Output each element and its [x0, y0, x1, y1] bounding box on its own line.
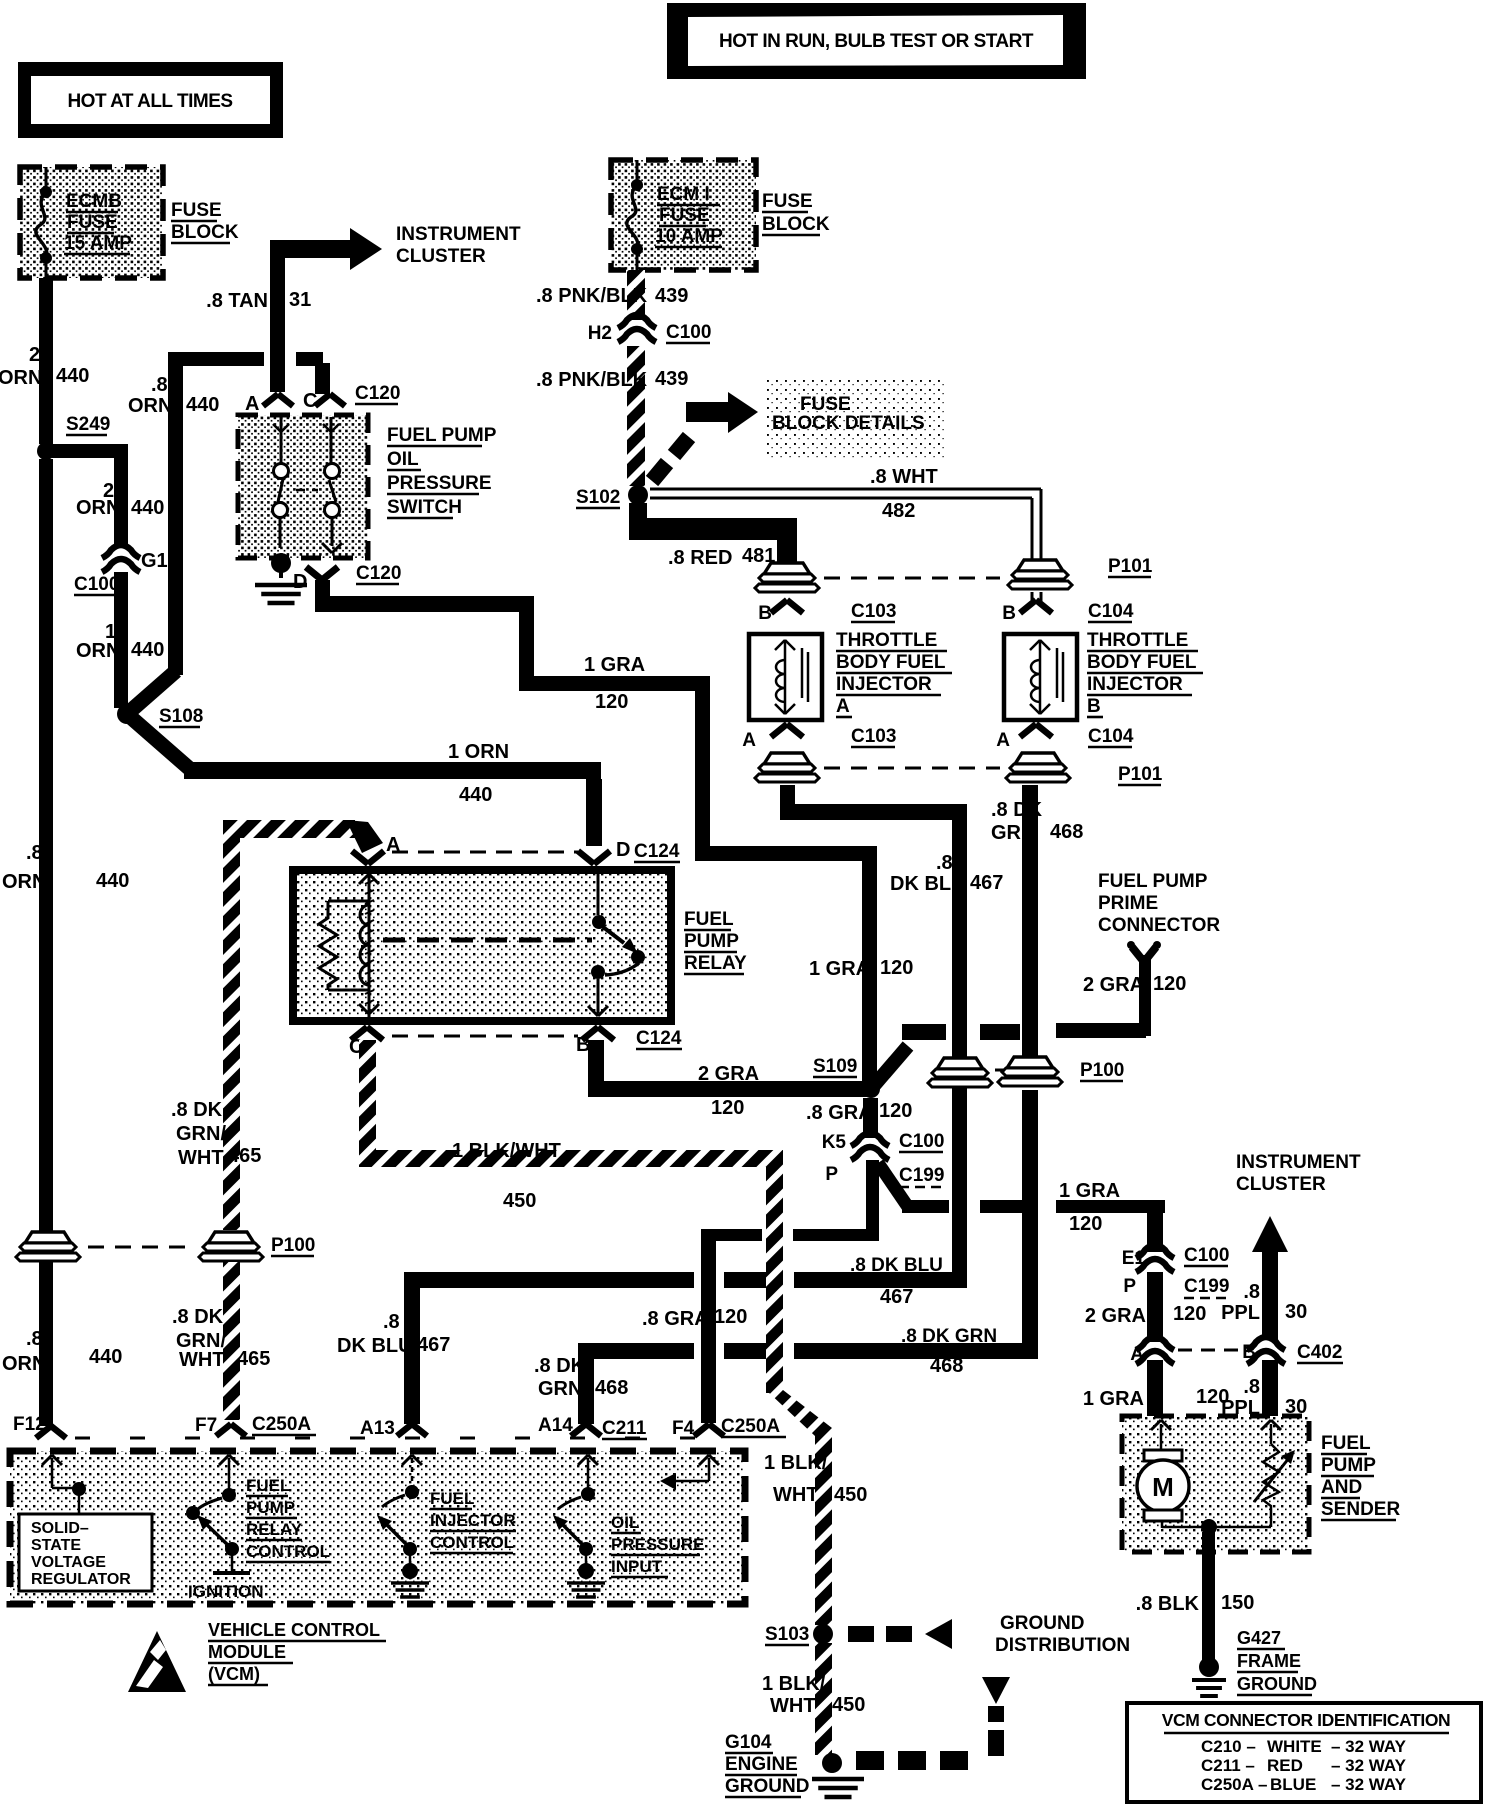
wire .8 DK GRN/WHT 465 relay A to F7: [223, 820, 383, 1230]
svg-text:.8 DK: .8 DK: [991, 799, 1043, 821]
label .8 GRA 120 (to F4): [642, 1306, 747, 1330]
svg-text:30: 30: [1285, 1301, 1307, 1323]
switch contact (left half): [273, 417, 290, 548]
svg-text:H2: H2: [588, 323, 612, 344]
svg-text:S249: S249: [66, 414, 110, 435]
svg-text:.8 PNK/BLK: .8 PNK/BLK: [536, 285, 648, 307]
wire .8 ORN 440 S108 up to switch C: [127, 671, 176, 714]
svg-text:1 GRA: 1 GRA: [584, 654, 645, 676]
svg-text:F4: F4: [672, 1418, 695, 1439]
fuel pump and sender box: [1122, 1416, 1309, 1552]
svg-text:439: 439: [655, 285, 688, 307]
svg-text:VEHICLE CONTROL: VEHICLE CONTROL: [208, 1620, 380, 1640]
label .8 WHT 482: [870, 466, 938, 522]
svg-text:468: 468: [1050, 821, 1083, 843]
svg-text:G104: G104: [725, 1732, 772, 1753]
wire .8 DK GRN/WHT 465 (lower): [223, 1262, 240, 1420]
svg-text:.8 DK: .8 DK: [172, 1306, 224, 1328]
svg-text:15 AMP: 15 AMP: [64, 233, 132, 254]
switch internal dashed link: [296, 489, 318, 492]
svg-text:ORN: ORN: [2, 1353, 46, 1375]
label .8 DK GRN/WHT 465 (upper): [171, 1099, 261, 1169]
svg-text:FUSE: FUSE: [67, 212, 118, 233]
svg-text:C402: C402: [1297, 1342, 1342, 1363]
pump/sender junction: [1162, 1519, 1271, 1535]
label 2 ORN 440 (upper left): [0, 344, 89, 389]
wire 2 ORN 440 branch from S249: [46, 444, 128, 458]
svg-text:C210 –: C210 –: [1201, 1737, 1256, 1756]
terminal F7 C250A: [195, 1414, 316, 1436]
fuel pump prime connector: [1127, 941, 1161, 962]
svg-text:FUEL: FUEL: [684, 909, 734, 930]
svg-text:440: 440: [89, 1346, 122, 1368]
svg-text:C100: C100: [1184, 1245, 1229, 1266]
svg-text:ECM I: ECM I: [657, 184, 710, 205]
label .8 DK GRN 468 (upper): [991, 799, 1083, 844]
terminal F4 C250A: [672, 1416, 786, 1439]
svg-text:.8: .8: [1243, 1376, 1260, 1398]
svg-text:.8: .8: [151, 374, 168, 396]
svg-text:.8 GRA: .8 GRA: [806, 1102, 873, 1124]
oil pressure switch box: [238, 415, 368, 558]
label .8 TAN 31: [206, 289, 311, 312]
title box HOT AT ALL TIMES: [18, 62, 283, 138]
wire .8 PNK/BLK 439 (lower): [627, 346, 645, 486]
svg-text:CONTROL: CONTROL: [246, 1542, 330, 1561]
wire 1 ORN 440 G1 to S108: [114, 572, 128, 708]
connector A / B C402: [1130, 1337, 1343, 1365]
svg-text:.8 DK GRN: .8 DK GRN: [901, 1326, 997, 1347]
svg-text:BLOCK: BLOCK: [171, 222, 239, 243]
svg-text:467: 467: [417, 1334, 450, 1356]
svg-text:1 GRA: 1 GRA: [809, 958, 870, 980]
VCM fuel injector control driver: [377, 1455, 429, 1597]
svg-text:BLUE: BLUE: [1270, 1775, 1316, 1794]
label ECMB FUSE 15 AMP: [64, 191, 132, 254]
VCM fuel pump relay control driver: [186, 1455, 250, 1573]
label 1 GRA 120 (at S109 vertical): [809, 957, 913, 980]
fuse block (right) outline: [611, 160, 756, 270]
svg-text:ENGINE: ENGINE: [725, 1754, 798, 1775]
node S102: [576, 485, 648, 508]
wire 2 ORN 440 from fuse block to S249: [39, 278, 53, 444]
connector E1 C100 / P C199: [1122, 1245, 1230, 1298]
svg-text:DK BLU: DK BLU: [890, 873, 966, 895]
svg-text:– 32 WAY: – 32 WAY: [1331, 1756, 1407, 1775]
label 2 GRA 120 (cluster): [1085, 1303, 1207, 1327]
svg-text:440: 440: [131, 497, 164, 519]
label FUSE BLOCK DETAILS: [765, 380, 945, 458]
svg-text:AND: AND: [1321, 1477, 1362, 1498]
svg-text:FUSE: FUSE: [171, 200, 222, 221]
wire 1 ORN 440 S108 to relay D: [127, 714, 191, 770]
svg-text:BODY FUEL: BODY FUEL: [1087, 652, 1197, 673]
throttle body fuel injector B: [1004, 634, 1077, 720]
label 1 ORN 440 (horizontal): [448, 741, 509, 806]
svg-text:ORN: ORN: [2, 871, 46, 893]
svg-text:GROUND: GROUND: [1237, 1674, 1317, 1694]
svg-text:440: 440: [96, 870, 129, 892]
label ECM I FUSE 10 AMP: [655, 184, 723, 247]
svg-text:2 GRA: 2 GRA: [698, 1063, 759, 1085]
svg-text:D: D: [616, 839, 630, 861]
VCM F4 internal arrow: [660, 1455, 719, 1490]
solid-state voltage regulator box: [19, 1514, 152, 1591]
svg-text:M: M: [1152, 1472, 1174, 1502]
ground (oil pressure switch): [255, 553, 307, 603]
terminal B C103: [758, 600, 896, 624]
label G427 FRAME GROUND: [1237, 1628, 1317, 1695]
wire .8 DK BLU 467 from injector A to A13: [780, 785, 795, 812]
svg-text:.8: .8: [26, 842, 43, 864]
svg-text:WHT: WHT: [179, 1349, 225, 1371]
VCM module box: [10, 1451, 745, 1604]
svg-text:A14: A14: [538, 1415, 573, 1436]
svg-text:INJECTOR: INJECTOR: [836, 674, 932, 695]
svg-text:PRIME: PRIME: [1098, 893, 1158, 914]
svg-text:B: B: [1002, 603, 1016, 624]
svg-text:VCM CONNECTOR IDENTIFICATION: VCM CONNECTOR IDENTIFICATION: [1162, 1710, 1451, 1730]
svg-text:.8: .8: [936, 852, 953, 874]
svg-text:FUEL: FUEL: [246, 1476, 290, 1495]
svg-text:GRN: GRN: [991, 822, 1035, 844]
svg-text:C211 –: C211 –: [1201, 1756, 1255, 1775]
terminal C (C120): [303, 390, 345, 412]
svg-text:465: 465: [237, 1348, 270, 1370]
svg-text:PRESSURE: PRESSURE: [611, 1535, 705, 1554]
svg-text:C124: C124: [634, 841, 680, 862]
svg-text:E1: E1: [1122, 1248, 1146, 1269]
svg-text:OIL: OIL: [611, 1513, 639, 1532]
label .8 RED 481: [668, 545, 775, 569]
svg-text:FUSE: FUSE: [659, 205, 710, 226]
wire .8 ORN 440 from P100 to F12: [39, 1262, 53, 1426]
wire .8 WHT 482 (S102 to P101): [650, 489, 1041, 604]
svg-text:CLUSTER: CLUSTER: [396, 246, 486, 267]
svg-text:WHITE: WHITE: [1267, 1737, 1322, 1756]
connector P101 grommet (lower left): [764, 753, 810, 764]
svg-text:BLOCK: BLOCK: [762, 214, 830, 235]
svg-text:120: 120: [595, 691, 628, 713]
svg-text:VOLTAGE: VOLTAGE: [31, 1554, 106, 1571]
svg-text:482: 482: [882, 500, 915, 522]
wire .8 DK GRN 468 from injector B to A14: [1022, 785, 1038, 1057]
svg-text:450: 450: [834, 1484, 867, 1506]
connector P101 grommet (lower right): [1006, 753, 1163, 785]
svg-text:C100: C100: [899, 1131, 944, 1152]
wire .8 PNK/BLK 439 (upper): [627, 270, 645, 320]
label FUEL PUMP OIL PRESSURE SWITCH: [387, 425, 497, 518]
svg-text:DISTRIBUTION: DISTRIBUTION: [995, 1635, 1130, 1656]
svg-text:.8 RED: .8 RED: [668, 547, 732, 569]
svg-text:FUSE: FUSE: [800, 394, 851, 415]
label FUEL PUMP PRIME CONNECTOR: [1098, 871, 1220, 936]
terminal A C103: [742, 724, 896, 751]
label FUSE BLOCK (right): [762, 191, 830, 235]
svg-text:467: 467: [970, 872, 1003, 894]
svg-text:B: B: [1087, 696, 1101, 717]
svg-text:C120: C120: [356, 563, 401, 584]
label OIL PRESSURE INPUT: [611, 1513, 705, 1577]
svg-text:450: 450: [832, 1694, 865, 1716]
svg-text:ECMB: ECMB: [66, 191, 122, 212]
svg-text:1 BLK/WHT: 1 BLK/WHT: [452, 1140, 561, 1162]
wire 1 BLK/WHT 450 relay C to S103: [359, 1040, 832, 1625]
svg-text:2: 2: [29, 344, 40, 366]
svg-text:.8 PNK/BLK: .8 PNK/BLK: [536, 369, 648, 391]
dashed line along VCM terminals: [75, 1437, 700, 1440]
svg-text:D: D: [293, 571, 307, 593]
svg-text:P100: P100: [271, 1235, 315, 1256]
svg-text:1 GRA: 1 GRA: [1083, 1388, 1144, 1410]
svg-text:BLOCK DETAILS: BLOCK DETAILS: [772, 413, 925, 434]
label INSTRUMENT CLUSTER (right): [1236, 1152, 1361, 1195]
svg-text:P100: P100: [1080, 1060, 1124, 1081]
label 1 ORN 440: [76, 621, 164, 662]
svg-text:SWITCH: SWITCH: [387, 497, 462, 518]
label 1 BLK/WHT 450 (horizontal): [452, 1140, 561, 1212]
dashed line A-D: [392, 851, 578, 854]
relay terminal B (C124): [576, 1027, 682, 1056]
svg-text:.8 DK: .8 DK: [534, 1355, 586, 1377]
fuel pump relay box: [293, 870, 671, 1021]
svg-text:440: 440: [459, 784, 492, 806]
svg-text:ORN: ORN: [76, 497, 120, 519]
svg-text:A13: A13: [360, 1418, 395, 1439]
svg-text:.8 DK: .8 DK: [171, 1099, 223, 1121]
svg-text:(VCM): (VCM): [208, 1664, 260, 1684]
node S249: [37, 414, 110, 460]
svg-text:WHT: WHT: [178, 1147, 224, 1169]
svg-text:P: P: [825, 1164, 838, 1185]
svg-text:FUEL: FUEL: [430, 1489, 474, 1508]
svg-text:C: C: [303, 390, 317, 412]
svg-text:P101: P101: [1118, 764, 1163, 785]
svg-text:PUMP: PUMP: [684, 931, 739, 952]
svg-text:150: 150: [1221, 1592, 1254, 1614]
svg-text:F12: F12: [13, 1414, 46, 1435]
svg-text:G427: G427: [1237, 1628, 1281, 1648]
wire .8 GRA 120 from P to F4: [866, 1160, 879, 1240]
svg-text:DK BLU: DK BLU: [337, 1335, 413, 1357]
label 1 GRA 120 (pump): [1083, 1386, 1230, 1410]
svg-text:PRESSURE: PRESSURE: [387, 473, 492, 494]
wire 2 GRA 120 S109 to fuel pump prime connector: [871, 1046, 908, 1089]
svg-text:C199: C199: [1184, 1276, 1229, 1297]
label .8 PNK/BLK 439 (lower): [536, 368, 688, 391]
svg-text:120: 120: [1153, 973, 1186, 995]
svg-text:467: 467: [880, 1286, 913, 1308]
svg-text:C199: C199: [899, 1165, 944, 1186]
svg-text:RELAY: RELAY: [246, 1520, 303, 1539]
svg-text:REGULATOR: REGULATOR: [31, 1571, 131, 1588]
connector P100 grommet (DK GRN): [998, 1057, 1124, 1086]
svg-text:CONTROL: CONTROL: [430, 1533, 514, 1552]
wire 1 GRA 120 into fuel pump: [1147, 1360, 1163, 1418]
terminal F12: [13, 1414, 66, 1438]
svg-text:465: 465: [228, 1145, 261, 1167]
svg-text:.8: .8: [26, 1328, 43, 1350]
connector P101 grommet (left): [764, 563, 810, 574]
dashed ground distribution link (bottom): [856, 1677, 1010, 1770]
svg-text:120: 120: [711, 1097, 744, 1119]
svg-text:PUMP: PUMP: [246, 1498, 295, 1517]
label THROTTLE BODY FUEL INJECTOR A: [836, 630, 952, 717]
svg-text:.8 DK BLU: .8 DK BLU: [850, 1255, 943, 1276]
svg-text:GROUND: GROUND: [725, 1776, 809, 1797]
connector P100 grommet (GRN/WHT): [199, 1232, 315, 1261]
svg-text:.8 WHT: .8 WHT: [870, 466, 938, 488]
dashed wire to ground distribution: [848, 1619, 952, 1649]
svg-text:– 32 WAY: – 32 WAY: [1331, 1775, 1407, 1794]
svg-text:INJECTOR: INJECTOR: [430, 1511, 516, 1530]
svg-text:P: P: [1123, 1276, 1136, 1297]
svg-text:SOLID–: SOLID–: [31, 1520, 89, 1537]
svg-text:120: 120: [880, 957, 913, 979]
svg-text:STATE: STATE: [31, 1537, 81, 1554]
svg-text:.8 GRA: .8 GRA: [642, 1308, 709, 1330]
label .8 DK BLU 467 (at A13): [337, 1311, 450, 1357]
label FUEL PUMP AND SENDER: [1321, 1433, 1400, 1520]
svg-text:1 ORN: 1 ORN: [448, 741, 509, 763]
svg-text:120: 120: [879, 1100, 912, 1122]
relay switch contacts: [588, 868, 645, 1016]
svg-text:FUSE: FUSE: [762, 191, 813, 212]
svg-text:K5: K5: [822, 1132, 847, 1153]
VCM oil pressure input driver: [553, 1455, 605, 1597]
svg-text:OIL: OIL: [387, 449, 419, 470]
svg-text:A: A: [836, 696, 850, 717]
svg-text:.8: .8: [383, 1311, 400, 1333]
svg-text:S103: S103: [765, 1624, 809, 1645]
svg-text:1 BLK/: 1 BLK/: [764, 1452, 828, 1474]
label 1 BLK/ WHT 450 (bottom): [762, 1673, 865, 1717]
svg-text:C100: C100: [74, 574, 119, 595]
wire .8 ORN 440 from S249 down to P100: [39, 459, 53, 1232]
svg-text:120: 120: [1173, 1303, 1206, 1325]
svg-text:1 BLK/: 1 BLK/: [762, 1673, 826, 1695]
svg-text:BODY FUEL: BODY FUEL: [836, 652, 946, 673]
svg-text:120: 120: [1069, 1213, 1102, 1235]
svg-text:468: 468: [930, 1355, 963, 1377]
svg-text:CONNECTOR: CONNECTOR: [1098, 915, 1220, 936]
fuse ECM I 10A symbol: [627, 160, 643, 270]
wire .8 PPL 30 instrument cluster arrow: [1252, 1216, 1288, 1252]
svg-text:440: 440: [131, 639, 164, 661]
wire 1 GRA 120 from D to S109: [315, 580, 330, 604]
svg-text:.8 BLK: .8 BLK: [1136, 1593, 1200, 1615]
svg-text:C211: C211: [602, 1418, 647, 1439]
terminal D (C120): [293, 563, 401, 593]
svg-text:WHT: WHT: [770, 1695, 816, 1717]
terminal A13: [360, 1418, 427, 1439]
svg-text:G1: G1: [141, 550, 168, 572]
svg-text:C104: C104: [1088, 601, 1134, 622]
svg-text:450: 450: [503, 1190, 536, 1212]
label .8 ORN 440 (mid left): [2, 842, 129, 893]
relay dashed actuation link: [383, 938, 592, 943]
dashed line A-B C402: [1178, 1349, 1242, 1352]
svg-text:SENDER: SENDER: [1321, 1499, 1400, 1520]
sender variable resistor: [1254, 1420, 1295, 1522]
svg-text:A: A: [742, 730, 756, 751]
label 1 BLK/ WHT 450 (vertical): [764, 1452, 867, 1506]
label FUEL PUMP RELAY CONTROL: [246, 1476, 330, 1562]
wire .8 TAN 31 with arrow to instrument cluster: [270, 240, 285, 392]
svg-text:PUMP: PUMP: [1321, 1455, 1376, 1476]
svg-text:ORN: ORN: [76, 640, 120, 662]
svg-text:C100: C100: [666, 322, 711, 343]
svg-text:S102: S102: [576, 487, 620, 508]
connector G1 C100: [74, 545, 168, 595]
svg-text:B: B: [1242, 1342, 1256, 1363]
dashed line C-B: [392, 1035, 578, 1038]
label G104 ENGINE GROUND: [725, 1732, 809, 1797]
svg-text:HOT AT ALL TIMES: HOT AT ALL TIMES: [67, 91, 232, 112]
svg-text:MODULE: MODULE: [208, 1642, 286, 1662]
svg-text:F7: F7: [195, 1415, 217, 1436]
connector K5 C100 / P C199: [822, 1131, 945, 1187]
svg-text:GRN/: GRN/: [176, 1123, 226, 1145]
relay terminal C (C124): [349, 1027, 383, 1058]
svg-text:C124: C124: [636, 1028, 682, 1049]
node S109: [813, 1056, 880, 1098]
svg-text:S108: S108: [159, 706, 203, 727]
label 1 GRA 120 (upper): [584, 654, 645, 713]
terminal A14 C211: [538, 1415, 647, 1439]
wire .8 BLK 150 to frame ground: [1202, 1532, 1215, 1662]
svg-text:RED: RED: [1267, 1756, 1303, 1775]
svg-text:440: 440: [56, 365, 89, 387]
label .8 BLK 150: [1136, 1592, 1255, 1615]
svg-text:31: 31: [289, 289, 311, 311]
relay coil: [359, 868, 379, 1018]
svg-text:C120: C120: [355, 383, 400, 404]
wire 1 GRA 120 from P to E1: [878, 1163, 908, 1207]
dashed line P100 left pair: [88, 1246, 192, 1249]
ground G104: [812, 1753, 864, 1797]
svg-text:INSTRUMENT: INSTRUMENT: [1236, 1152, 1361, 1173]
svg-text:10 AMP: 10 AMP: [655, 226, 723, 247]
svg-text:FRAME: FRAME: [1237, 1651, 1301, 1671]
svg-text:INSTRUMENT: INSTRUMENT: [396, 224, 521, 245]
relay terminal D (C124): [578, 839, 680, 864]
label .8 PPL 30 (upper): [1221, 1281, 1307, 1324]
throttle body fuel injector A: [749, 634, 822, 720]
svg-text:468: 468: [595, 1377, 628, 1399]
svg-text:.8 TAN: .8 TAN: [206, 290, 268, 312]
label .8 DK GRN/WHT 465 (lower): [172, 1306, 270, 1371]
label FUSE BLOCK (left): [171, 200, 239, 243]
dashed line P100 pair: [995, 1069, 1006, 1072]
wire 2 GRA 120 relay B to S109: [588, 1040, 604, 1097]
dashed line between P101 pair (upper): [824, 577, 1000, 580]
svg-text:C103: C103: [851, 601, 896, 622]
svg-text:FUEL PUMP: FUEL PUMP: [1098, 871, 1208, 892]
label .8 DK BLU 467 (right): [890, 852, 1003, 895]
label .8 ORN 440 (to switch): [128, 374, 219, 417]
label 2 ORN 440 (branch): [76, 480, 164, 519]
svg-text:GRN: GRN: [538, 1378, 582, 1400]
svg-text:FUEL PUMP: FUEL PUMP: [387, 425, 497, 446]
label .8 ORN 440 (lower left): [2, 1328, 122, 1375]
svg-text:.8: .8: [1243, 1281, 1260, 1303]
label .8 GRA 120: [806, 1100, 912, 1124]
svg-text:THROTTLE: THROTTLE: [836, 630, 937, 651]
ground G427: [1192, 1657, 1226, 1696]
svg-text:2 GRA: 2 GRA: [1083, 974, 1144, 996]
title box HOT IN RUN, BULB TEST OR START: [667, 3, 1086, 79]
